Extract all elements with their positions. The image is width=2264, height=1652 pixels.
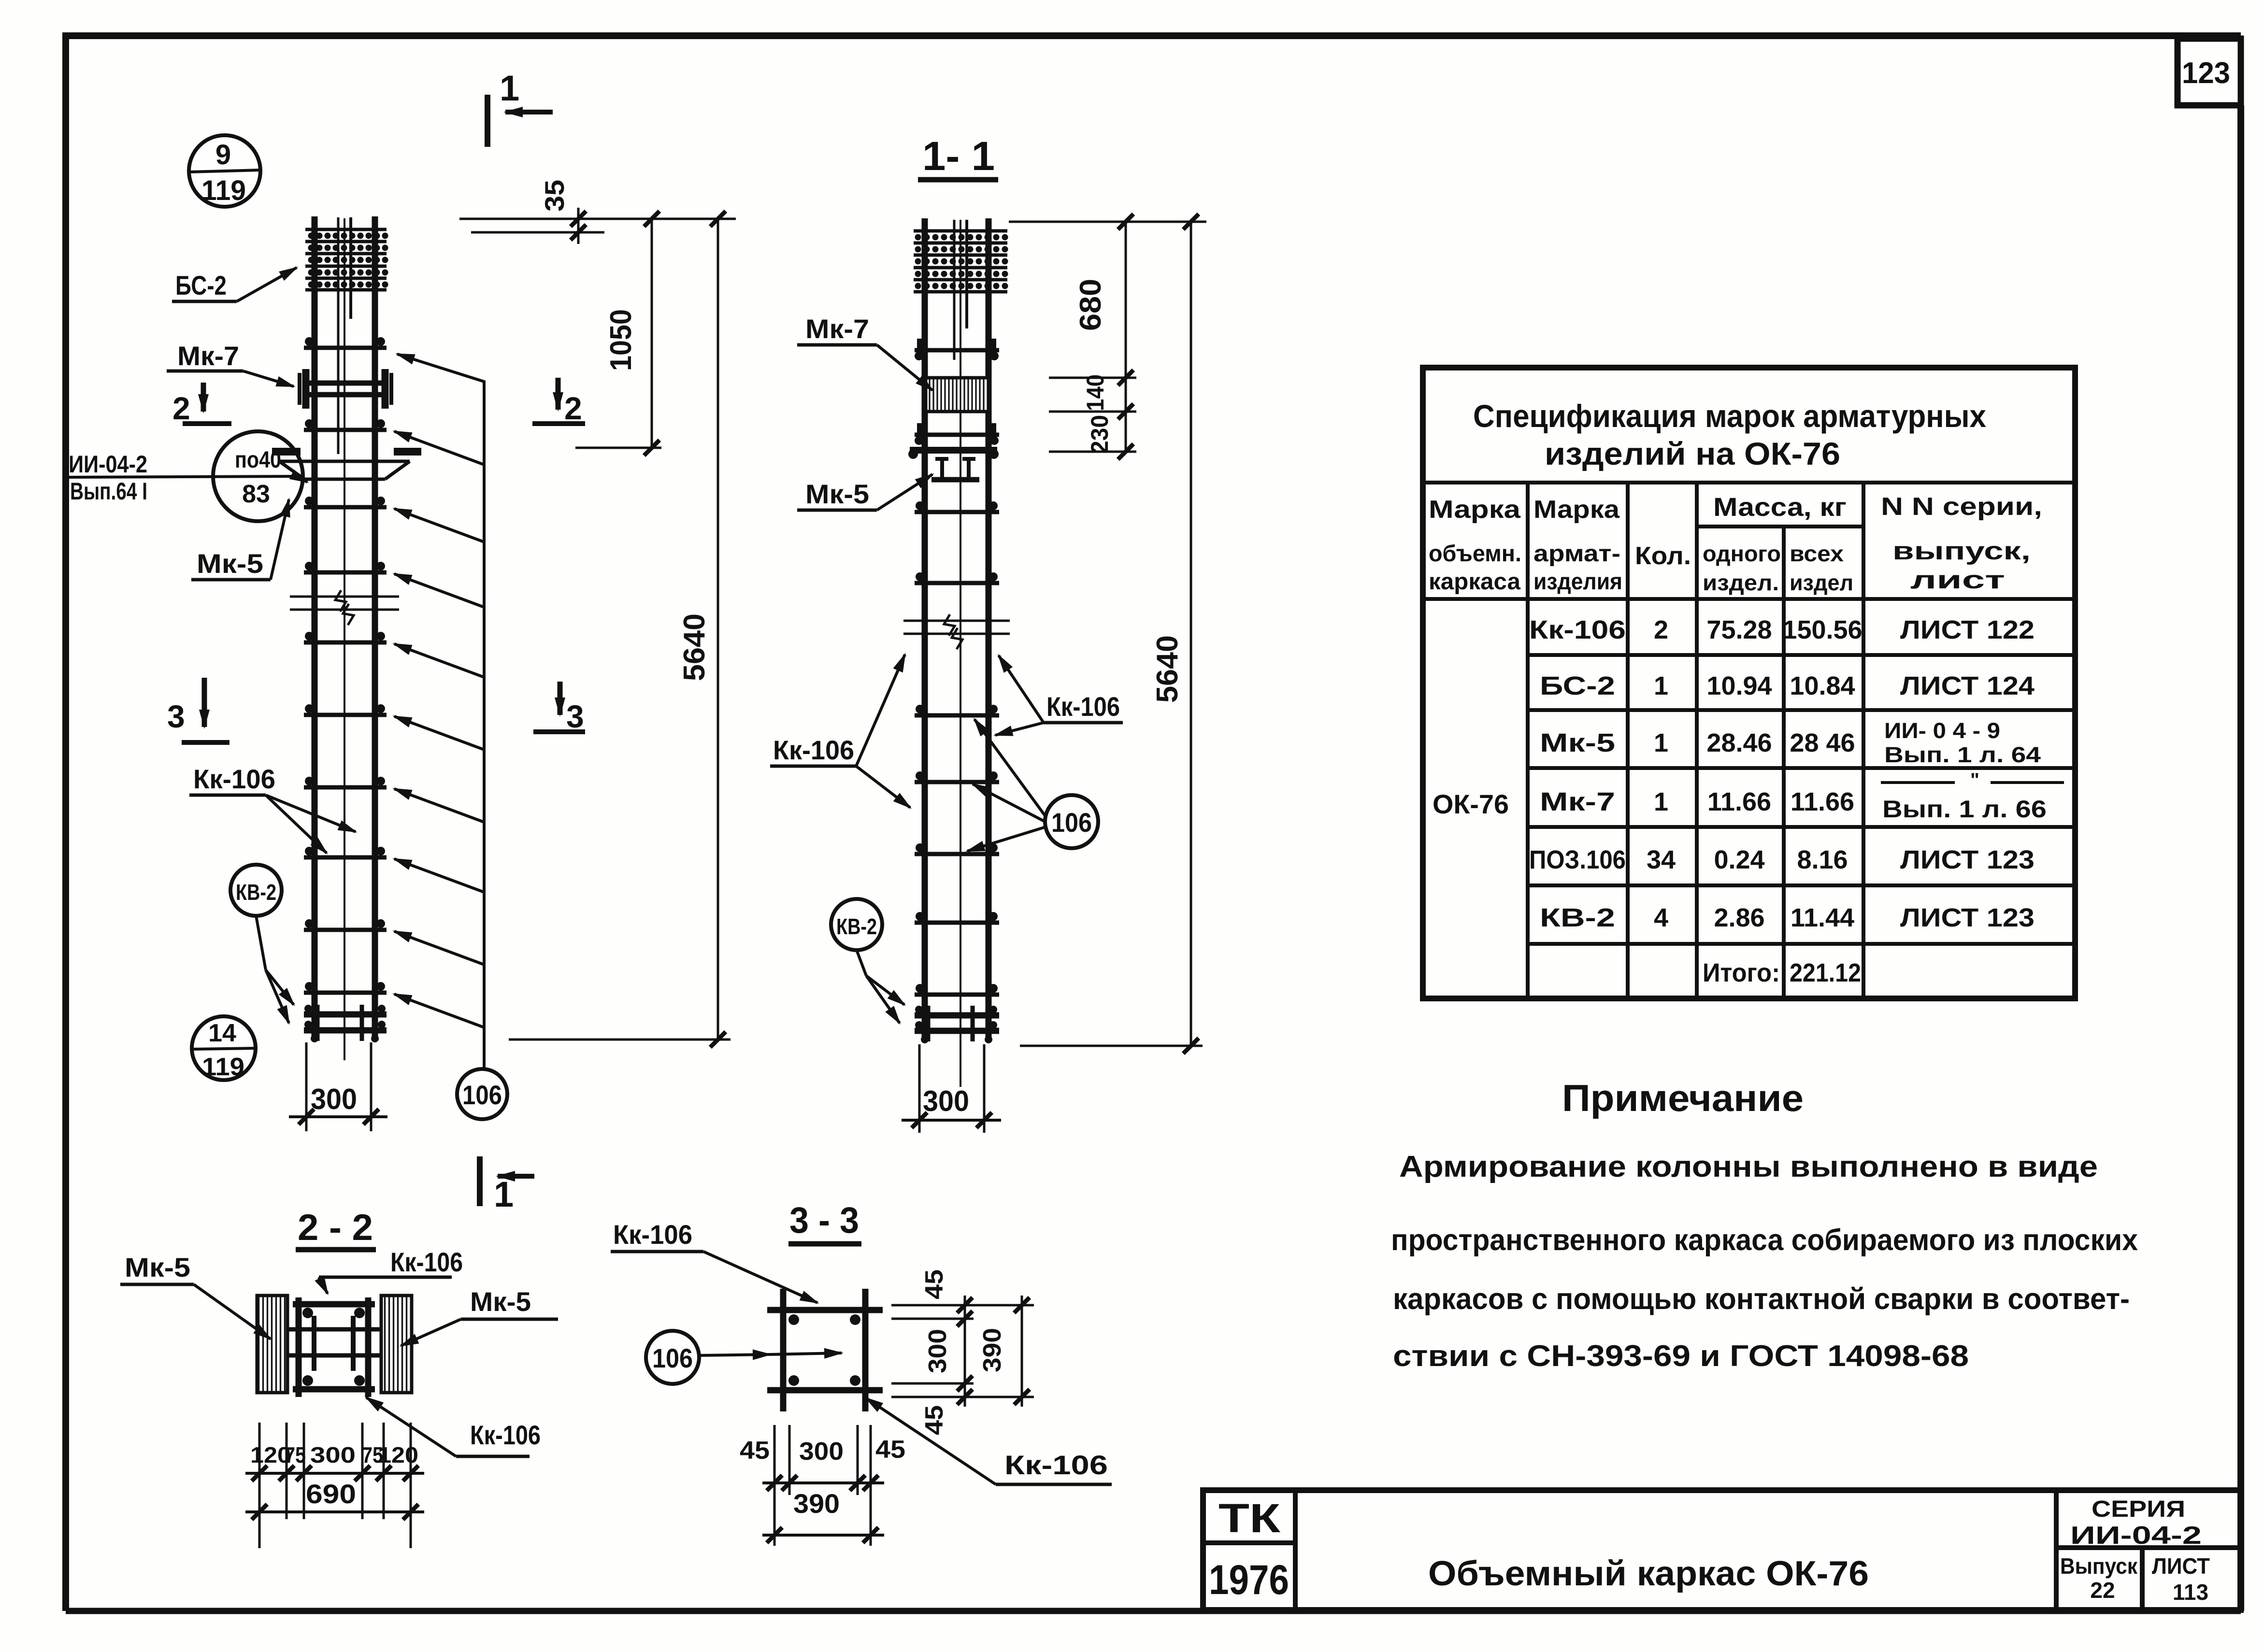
left column: BS-2 top mesh bbox=[305, 217, 388, 319]
svg-text:КВ-2: КВ-2 bbox=[836, 914, 877, 939]
dimension 300 under 1-1 column bbox=[902, 1044, 1001, 1133]
note text bbox=[1391, 1150, 2138, 1373]
svg-text:Марка: Марка bbox=[1533, 496, 1620, 524]
position circle 106 (3-3) with leader bbox=[646, 1331, 842, 1384]
label Mk-7 with leader (1-1) bbox=[797, 313, 932, 390]
svg-text:Кк-106: Кк-106 bbox=[773, 735, 854, 765]
svg-text:ЛИСТ 122: ЛИСТ 122 bbox=[1900, 615, 2035, 644]
svg-text:изделия: изделия bbox=[1533, 569, 1622, 595]
svg-text:150.56: 150.56 bbox=[1782, 615, 1862, 644]
svg-text:22: 22 bbox=[2090, 1578, 2115, 1603]
label Kk-106 (3-3 top-left) with leader bbox=[611, 1219, 817, 1303]
detail mark circle 9/119 bbox=[189, 135, 261, 207]
svg-text:ТК: ТК bbox=[1218, 1495, 1281, 1541]
svg-text:119: 119 bbox=[201, 175, 246, 206]
svg-text:3: 3 bbox=[167, 698, 185, 734]
svg-text:КВ-2: КВ-2 bbox=[1540, 903, 1615, 932]
svg-text:230: 230 bbox=[1086, 415, 1113, 454]
label Mk-5 (2-2 right) with leader bbox=[401, 1286, 558, 1346]
svg-text:140: 140 bbox=[1082, 374, 1109, 411]
svg-text:8.16: 8.16 bbox=[1797, 845, 1848, 874]
svg-text:3: 3 bbox=[566, 698, 584, 734]
svg-text:14: 14 bbox=[208, 1019, 236, 1047]
svg-text:45: 45 bbox=[740, 1437, 770, 1465]
position circle 106 (left) bbox=[457, 1069, 507, 1119]
svg-text:Вып. 1 л. 64: Вып. 1 л. 64 bbox=[1884, 742, 2041, 767]
svg-text:КВ-2: КВ-2 bbox=[236, 880, 276, 905]
svg-text:Кк-106: Кк-106 bbox=[1529, 615, 1626, 644]
2-2: stirrup square with corner bars bbox=[293, 1297, 375, 1397]
svg-text:ПОЗ.106: ПОЗ.106 bbox=[1529, 845, 1626, 874]
svg-text:390: 390 bbox=[978, 1328, 1006, 1372]
svg-text:1: 1 bbox=[1654, 671, 1668, 700]
left column: Mk-7 welded plates assembly bbox=[300, 369, 391, 409]
svg-text:123: 123 bbox=[2182, 57, 2230, 90]
svg-text:1976: 1976 bbox=[1209, 1557, 1289, 1603]
dimension 5640 (1-1) bbox=[1020, 214, 1203, 1054]
svg-text:120: 120 bbox=[378, 1442, 418, 1467]
title block: TK / 1976 bbox=[1209, 1495, 1289, 1603]
svg-text:одного: одного bbox=[1703, 541, 1781, 566]
label Kk-106 (2-2 top) with leader bbox=[319, 1247, 463, 1294]
svg-text:1: 1 bbox=[500, 68, 519, 108]
svg-text:2.86: 2.86 bbox=[1714, 903, 1764, 932]
svg-text:119: 119 bbox=[202, 1053, 244, 1081]
svg-text:45: 45 bbox=[920, 1405, 948, 1435]
svg-text:0.24: 0.24 bbox=[1714, 845, 1764, 874]
svg-text:300: 300 bbox=[799, 1438, 844, 1466]
1-1 column: stirrups with end plates bbox=[915, 339, 999, 995]
svg-text:Спецификация марок арматурны: Спецификация марок арматурных bbox=[1473, 398, 1986, 434]
svg-text:Мк-7: Мк-7 bbox=[1540, 787, 1615, 816]
section mark 2 (right of 1050 dim) bbox=[532, 378, 585, 426]
svg-text:300: 300 bbox=[923, 1085, 969, 1117]
1-1 column: break lines bbox=[903, 614, 1010, 649]
svg-text:Мк-5: Мк-5 bbox=[1540, 728, 1615, 757]
2-2 dimension 690 bbox=[245, 1479, 424, 1520]
svg-text:Кк-106: Кк-106 bbox=[1004, 1450, 1108, 1480]
leader collector line to circle 106 with arrows at stirrups bbox=[394, 354, 484, 1068]
label Kk-106 (2-2 bottom) with leader bbox=[366, 1397, 541, 1456]
title block: sheet 113 bbox=[2152, 1553, 2210, 1605]
svg-text:106: 106 bbox=[652, 1343, 693, 1373]
svg-text:Выпуск: Выпуск bbox=[2060, 1553, 2138, 1579]
3-3: stirrup square with corner bars bbox=[767, 1289, 883, 1411]
svg-text:11.66: 11.66 bbox=[1791, 787, 1854, 816]
svg-text:по40: по40 bbox=[235, 447, 281, 473]
svg-text:БС-2: БС-2 bbox=[1540, 671, 1615, 700]
table title bbox=[1473, 398, 1986, 471]
dimension 35 (top offset) bbox=[459, 180, 736, 244]
left column: stirrups (pos.106) with end hooks bbox=[304, 337, 387, 993]
dimension 140 (1-1) bbox=[1049, 370, 1136, 411]
label Mk-7 with leader bbox=[167, 341, 294, 386]
svg-text:Масса, кг: Масса, кг bbox=[1713, 493, 1847, 522]
section mark 3 (right, mid-height) bbox=[533, 682, 585, 734]
svg-text:2: 2 bbox=[564, 390, 582, 426]
1-1 column: console cross plate bbox=[908, 449, 999, 459]
table totals row bbox=[1703, 958, 1861, 987]
svg-text:75.28: 75.28 bbox=[1706, 615, 1772, 644]
svg-text:300: 300 bbox=[924, 1329, 952, 1373]
table data rows bbox=[1529, 615, 2035, 932]
svg-text:Марка: Марка bbox=[1429, 496, 1521, 524]
svg-text:1050: 1050 bbox=[604, 309, 638, 371]
svg-text:издел: издел bbox=[1790, 570, 1853, 595]
note heading bbox=[1562, 1077, 1804, 1119]
2-2: Mk-5 tie bars bbox=[287, 1316, 381, 1371]
label Kk-106 (1-1 right) with leaders bbox=[995, 655, 1123, 735]
svg-text:ИИ-04-2: ИИ-04-2 bbox=[2070, 1522, 2202, 1550]
label Kk-106 (3-3 bottom-right) with leader bbox=[866, 1398, 1112, 1484]
svg-text:45: 45 bbox=[875, 1436, 905, 1464]
svg-text:690: 690 bbox=[306, 1479, 356, 1509]
svg-text:34: 34 bbox=[1647, 845, 1676, 874]
svg-text:1: 1 bbox=[1654, 728, 1668, 757]
svg-text:300: 300 bbox=[311, 1083, 357, 1115]
detail mark circle KV-2 (1-1) with leaders bbox=[831, 899, 904, 1023]
svg-text:10.94: 10.94 bbox=[1706, 671, 1772, 700]
dimension 300 under left column bbox=[289, 1042, 387, 1131]
svg-text:106: 106 bbox=[462, 1080, 502, 1110]
section 1-1 title bbox=[918, 133, 998, 180]
2-2: right Mk-5 plate (hatched) bbox=[381, 1296, 412, 1393]
label Mk-5 (2-2 left) with leader bbox=[120, 1252, 271, 1339]
svg-text:ИИ- 0 4 - 9: ИИ- 0 4 - 9 bbox=[1884, 718, 2000, 743]
svg-text:28.46: 28.46 bbox=[1706, 728, 1772, 757]
left column: bottom KV-2 mesh bbox=[304, 1005, 387, 1042]
svg-text:390: 390 bbox=[793, 1488, 840, 1519]
svg-text:": " bbox=[1970, 769, 1979, 791]
table cell series ref row3 (II-04-9 / Vyp.1 l.64) bbox=[1884, 718, 2041, 767]
svg-text:11.66: 11.66 bbox=[1707, 787, 1771, 816]
svg-text:5640: 5640 bbox=[678, 613, 711, 681]
detail mark circle 14/119 bbox=[192, 1016, 257, 1081]
svg-text:45: 45 bbox=[920, 1269, 948, 1299]
svg-text:СЕРИЯ: СЕРИЯ bbox=[2092, 1496, 2185, 1522]
1-1 column: longitudinal bars bbox=[925, 218, 989, 1087]
label Kk-106 (1-1 left) with leaders bbox=[770, 655, 910, 808]
table cell OK-76 bbox=[1433, 789, 1509, 819]
svg-text:каркасов с помощью контактно: каркасов с помощью контактной сварки в с… bbox=[1393, 1282, 2130, 1316]
svg-text:всех: всех bbox=[1790, 541, 1844, 566]
svg-text:Итого:: Итого: bbox=[1703, 958, 1780, 987]
svg-text:75: 75 bbox=[285, 1442, 306, 1467]
title block: drawing name bbox=[1428, 1554, 1869, 1593]
svg-text:35: 35 bbox=[539, 180, 570, 212]
svg-text:ЛИСТ 124: ЛИСТ 124 bbox=[1900, 671, 2035, 700]
svg-text:Кк-106: Кк-106 bbox=[613, 1219, 692, 1250]
svg-text:1- 1: 1- 1 bbox=[922, 133, 995, 179]
svg-text:Вып. 1 л. 66: Вып. 1 л. 66 bbox=[1882, 796, 2047, 823]
label BS-2 with leader bbox=[172, 268, 297, 301]
svg-text:пространственного каркаса со: пространственного каркаса собираемого из… bbox=[1391, 1224, 2138, 1257]
left column: console (corbel) bbox=[272, 452, 421, 479]
table header cells bbox=[1429, 493, 2042, 595]
section mark 3 (left side) bbox=[167, 678, 229, 742]
dimension 680 (1-1) bbox=[1009, 214, 1206, 452]
position circle 106 (1-1) with leaders bbox=[967, 719, 1098, 851]
svg-text:издел.: издел. bbox=[1703, 570, 1779, 595]
svg-text:Мк-5: Мк-5 bbox=[125, 1252, 190, 1282]
svg-text:2 - 2: 2 - 2 bbox=[298, 1207, 373, 1248]
svg-text:ЛИСТ: ЛИСТ bbox=[2152, 1553, 2210, 1579]
svg-text:4: 4 bbox=[1654, 903, 1668, 932]
svg-text:выпуск,: выпуск, bbox=[1892, 537, 2031, 565]
svg-text:10.84: 10.84 bbox=[1790, 671, 1855, 700]
svg-text:ОК-76: ОК-76 bbox=[1433, 789, 1509, 819]
1-1 column: Mk-5 insert (I-beams) bbox=[931, 459, 979, 480]
svg-text:Кк-106: Кк-106 bbox=[193, 764, 275, 794]
svg-text:Мк-5: Мк-5 bbox=[197, 548, 263, 579]
svg-text:Объемный каркас ОК-76: Объемный каркас ОК-76 bbox=[1428, 1554, 1869, 1593]
svg-text:БС-2: БС-2 bbox=[175, 270, 227, 300]
label Mk-5 with leader (1-1) bbox=[797, 474, 932, 510]
svg-text:28 46: 28 46 bbox=[1790, 728, 1855, 757]
svg-text:объемн.: объемн. bbox=[1429, 541, 1521, 567]
svg-text:каркаса: каркаса bbox=[1429, 569, 1520, 595]
svg-text:Мк-7: Мк-7 bbox=[805, 313, 869, 344]
dimension 230 (1-1) bbox=[1049, 404, 1136, 459]
svg-text:2: 2 bbox=[172, 390, 190, 426]
svg-text:5640: 5640 bbox=[1151, 635, 1184, 703]
svg-text:1: 1 bbox=[1654, 787, 1668, 816]
detail mark circle KV-2 (left) with leaders bbox=[230, 865, 294, 1023]
svg-text:ЛИСТ 123: ЛИСТ 123 bbox=[1900, 903, 2035, 932]
table cell series ref row4 (Vyp.1 l.66 with ditto) bbox=[1881, 769, 2064, 823]
svg-text:Армирование колонны выполнено: Армирование колонны выполнено в виде bbox=[1399, 1150, 2098, 1183]
svg-text:83: 83 bbox=[242, 480, 270, 508]
svg-text:ствии с СН-393-69 и ГОСТ: ствии с СН-393-69 и ГОСТ 14098-68 bbox=[1393, 1339, 1969, 1373]
label Mk-5 with leader (left elevation) bbox=[191, 499, 289, 580]
svg-text:армат-: армат- bbox=[1533, 541, 1620, 567]
svg-text:221.12: 221.12 bbox=[1790, 958, 1861, 987]
section mark 1 (top) bbox=[487, 68, 553, 147]
dimension 1050 bbox=[575, 211, 661, 456]
left column: break lines bbox=[290, 590, 399, 625]
svg-text:113: 113 bbox=[2173, 1580, 2208, 1605]
section mark 2 (left side) bbox=[172, 383, 231, 426]
svg-text:Кол.: Кол. bbox=[1635, 542, 1691, 570]
svg-text:Кк-106: Кк-106 bbox=[470, 1420, 541, 1450]
title block: frame bbox=[1203, 1490, 2241, 1610]
title block: issue 22 bbox=[2060, 1553, 2138, 1603]
svg-text:лист: лист bbox=[1910, 566, 2005, 594]
svg-text:2: 2 bbox=[1654, 615, 1668, 644]
svg-text:Кк-106: Кк-106 bbox=[1046, 691, 1120, 722]
2-2 dimension chain 120/75/300/75/120 bbox=[245, 1423, 424, 1548]
svg-text:300: 300 bbox=[310, 1442, 356, 1467]
1-1 column: bottom KV-2 mesh bbox=[915, 1006, 999, 1043]
1-1 column: Mk-7 plate (hatched) bbox=[926, 378, 989, 412]
svg-text:9: 9 bbox=[215, 139, 231, 171]
svg-text:Мк-5: Мк-5 bbox=[805, 479, 869, 509]
svg-text:ИИ-04-2: ИИ-04-2 bbox=[69, 451, 147, 478]
svg-text:Примечание: Примечание bbox=[1562, 1077, 1804, 1119]
title block: series bbox=[2070, 1496, 2202, 1550]
1-1 column: BS-2 top mesh bbox=[914, 220, 1008, 328]
svg-text:N N серии,: N N серии, bbox=[1881, 493, 2042, 521]
dimension 5640 (left) bbox=[509, 211, 731, 1047]
svg-text:1: 1 bbox=[494, 1174, 514, 1214]
section 3-3 title bbox=[788, 1200, 861, 1244]
svg-text:Мк-7: Мк-7 bbox=[177, 341, 239, 371]
2-2: left Mk-5 plate (hatched) bbox=[257, 1296, 287, 1393]
3-3 bottom dimensions 45/300/45 and 390 bbox=[740, 1425, 905, 1546]
reference II-04-2 Vyp.64 with circle po40/83 bbox=[67, 431, 307, 521]
svg-text:Мк-5: Мк-5 bbox=[470, 1286, 531, 1317]
specification table: grid bbox=[1423, 368, 2075, 998]
svg-text:Вып.64 I: Вып.64 I bbox=[70, 478, 147, 505]
label Kk-106 with two leaders (left elevation) bbox=[189, 764, 356, 853]
left column elevation: longitudinal bars bbox=[315, 216, 375, 1060]
svg-text:изделий на ОК-76: изделий на ОК-76 bbox=[1545, 436, 1840, 471]
svg-text:680: 680 bbox=[1074, 279, 1107, 331]
section mark 1 (bottom) bbox=[480, 1156, 534, 1214]
sheet number box "123" bbox=[2178, 39, 2241, 105]
section 2-2 title bbox=[296, 1207, 376, 1250]
svg-text:11.44: 11.44 bbox=[1791, 903, 1854, 932]
svg-text:ЛИСТ 123: ЛИСТ 123 bbox=[1900, 845, 2035, 874]
svg-text:106: 106 bbox=[1051, 807, 1092, 838]
3-3 right dimensions 45/300/45 and 390 bbox=[891, 1269, 1034, 1435]
svg-text:Кк-106: Кк-106 bbox=[390, 1247, 463, 1277]
svg-text:3 - 3: 3 - 3 bbox=[789, 1200, 859, 1241]
